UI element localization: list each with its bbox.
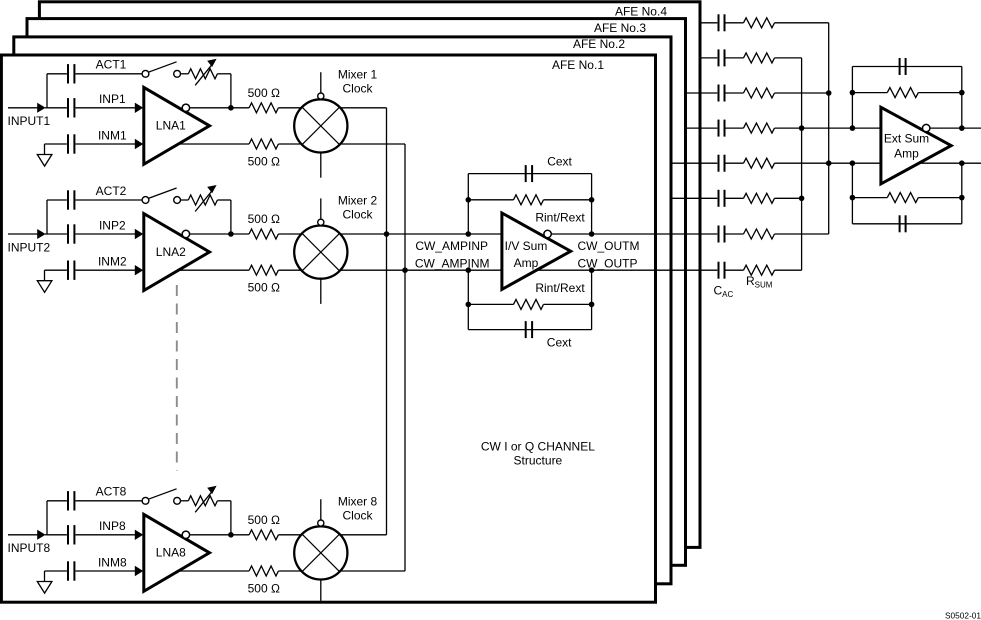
svg-text:Rint/Rext: Rint/Rext	[535, 281, 585, 295]
svg-text:AFE No.3: AFE No.3	[594, 21, 646, 35]
svg-text:Cext: Cext	[547, 154, 572, 168]
svg-text:Amp: Amp	[894, 146, 919, 160]
svg-text:500 Ω: 500 Ω	[248, 582, 280, 596]
svg-text:CW_OUTP: CW_OUTP	[578, 256, 638, 270]
svg-text:Mixer 1: Mixer 1	[338, 68, 378, 82]
svg-text:CW_AMPINP: CW_AMPINP	[415, 239, 488, 253]
svg-text:CW_OUTM: CW_OUTM	[578, 239, 640, 253]
svg-text:Clock: Clock	[342, 82, 373, 96]
svg-text:S0502-01: S0502-01	[945, 611, 981, 620]
svg-text:INPUT8: INPUT8	[8, 541, 51, 555]
svg-text:Mixer 2: Mixer 2	[338, 194, 378, 208]
svg-text:INPUT1: INPUT1	[8, 114, 51, 128]
svg-text:ACT2: ACT2	[96, 184, 127, 198]
svg-text:LNA2: LNA2	[156, 245, 186, 259]
svg-text:INM1: INM1	[98, 128, 127, 142]
svg-text:CW_AMPINM: CW_AMPINM	[415, 256, 490, 270]
svg-text:ACT8: ACT8	[96, 485, 127, 499]
svg-text:INP1: INP1	[99, 92, 126, 106]
svg-text:CW I or Q CHANNEL: CW I or Q CHANNEL	[481, 439, 595, 453]
svg-text:500 Ω: 500 Ω	[248, 155, 280, 169]
svg-text:Clock: Clock	[342, 509, 373, 523]
svg-text:INM2: INM2	[98, 255, 127, 269]
svg-text:Rint/Rext: Rint/Rext	[535, 210, 585, 224]
svg-text:500 Ω: 500 Ω	[248, 212, 280, 226]
svg-text:ACT1: ACT1	[96, 58, 127, 72]
svg-text:Structure: Structure	[514, 454, 563, 468]
svg-text:500 Ω: 500 Ω	[248, 281, 280, 295]
svg-text:500 Ω: 500 Ω	[248, 86, 280, 100]
svg-text:INM8: INM8	[98, 555, 127, 569]
svg-text:AFE No.1: AFE No.1	[552, 58, 604, 72]
svg-text:Cext: Cext	[547, 335, 572, 349]
svg-text:AFE No.4: AFE No.4	[615, 4, 667, 18]
svg-text:Mixer 8: Mixer 8	[338, 495, 378, 509]
svg-text:LNA8: LNA8	[156, 546, 186, 560]
svg-text:INP8: INP8	[99, 519, 126, 533]
svg-text:INPUT2: INPUT2	[8, 240, 51, 254]
svg-text:INP2: INP2	[99, 218, 126, 232]
svg-text:Ext Sum: Ext Sum	[884, 131, 929, 145]
svg-text:AFE No.2: AFE No.2	[573, 37, 625, 51]
svg-text:I/V Sum: I/V Sum	[505, 239, 548, 253]
svg-text:LNA1: LNA1	[156, 119, 186, 133]
svg-text:500 Ω: 500 Ω	[248, 513, 280, 527]
svg-text:Clock: Clock	[342, 208, 373, 222]
svg-text:Amp: Amp	[514, 256, 539, 270]
